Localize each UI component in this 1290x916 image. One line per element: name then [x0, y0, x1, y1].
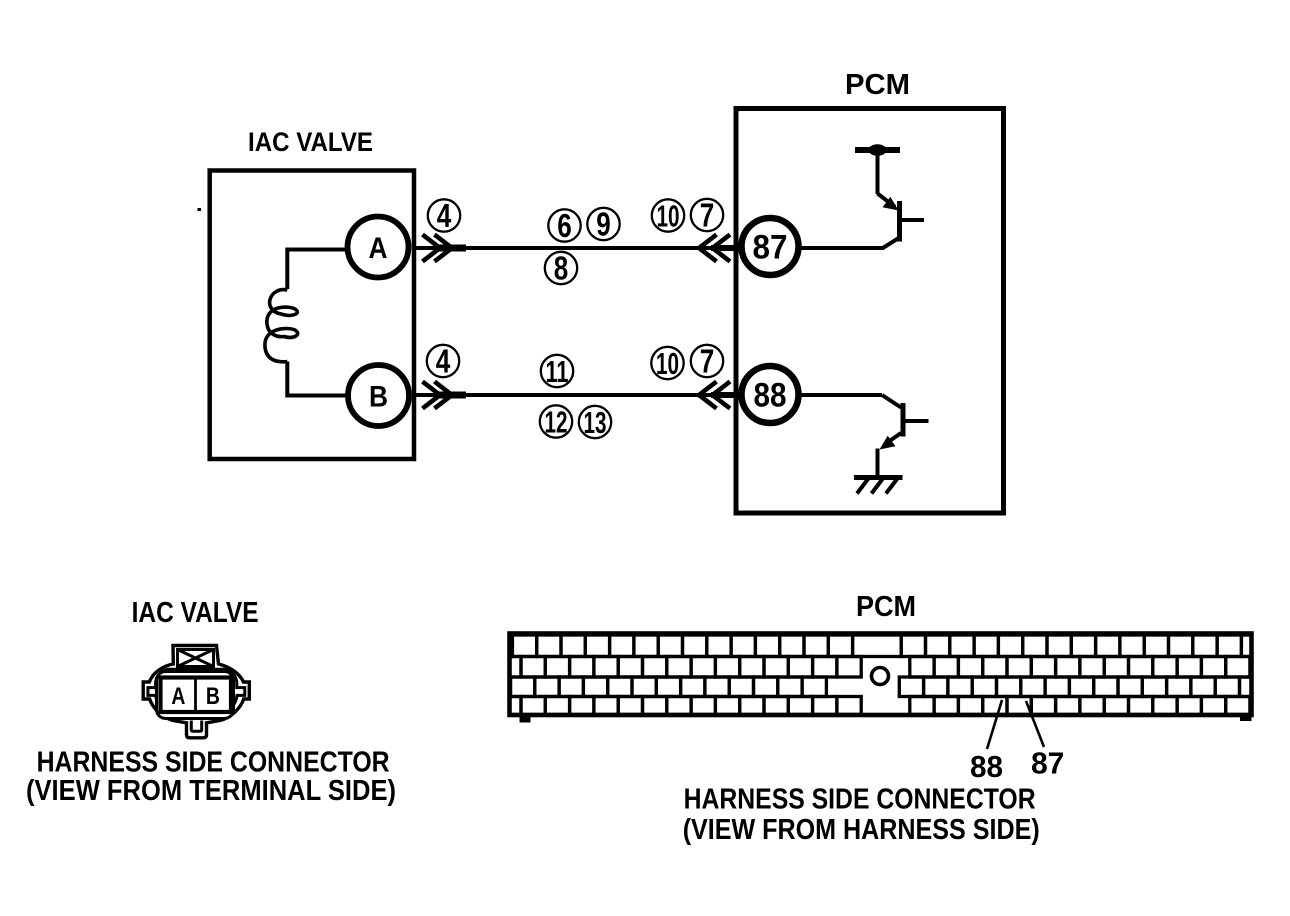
leader line to terminal 87 — [1026, 701, 1044, 747]
wire A to pin 87 — [414, 246, 736, 250]
wire power to Q1 emitter — [876, 150, 880, 194]
svg-text:10: 10 — [657, 199, 680, 234]
wire coil to terminal B — [287, 362, 345, 396]
circled 10 (bottom wire) — [651, 346, 683, 381]
svg-text:B: B — [369, 380, 388, 413]
ground — [854, 478, 903, 494]
svg-text:7: 7 — [700, 197, 715, 234]
svg-text:PCM: PCM — [845, 69, 910, 101]
svg-text:HARNESS SIDE CONNECTOR: HARNESS SIDE CONNECTOR — [37, 747, 390, 779]
circled 11 — [541, 354, 573, 389]
svg-text:7: 7 — [700, 343, 715, 380]
circled 4 (bottom wire) — [427, 343, 459, 380]
wire B to pin 88 — [414, 393, 736, 397]
wire pin 87 to Q1 collector — [799, 246, 884, 250]
svg-text:88: 88 — [970, 749, 1003, 784]
circled 8 — [545, 250, 577, 287]
circled 13 — [579, 405, 611, 440]
circled 12 — [540, 405, 572, 440]
stray scan dot — [198, 208, 202, 211]
svg-text:(VIEW FROM TERMINAL SIDE): (VIEW FROM TERMINAL SIDE) — [26, 775, 396, 807]
pin 88 — [742, 366, 799, 423]
leader line to terminal 88 — [987, 700, 1002, 749]
circled 10 (top wire) — [652, 199, 684, 234]
connector arrows at PCM end (bottom wire) — [699, 382, 735, 409]
PCM harness connector body — [510, 634, 1252, 716]
svg-text:A: A — [369, 232, 388, 265]
terminal A — [348, 217, 409, 278]
IAC valve harness connector outline — [143, 646, 249, 738]
circled 9 — [587, 206, 619, 243]
transistor Q2 (NPN) — [880, 395, 929, 450]
transistor Q1 (PNP) — [878, 194, 925, 249]
terminal housing — [157, 672, 234, 719]
svg-text:A: A — [171, 683, 185, 710]
svg-text:87: 87 — [753, 228, 788, 266]
wire Q2 emitter to ground — [876, 449, 880, 478]
terminal B — [348, 365, 409, 426]
circled 7 (bottom wire) — [691, 343, 723, 380]
wire terminal A to coil — [287, 250, 345, 290]
svg-text:88: 88 — [754, 377, 787, 415]
svg-text:9: 9 — [596, 206, 611, 243]
circled 4 (top wire) — [428, 197, 460, 234]
svg-text:87: 87 — [1031, 746, 1065, 781]
PCM connector mounting feet — [520, 715, 531, 723]
svg-text:(VIEW FROM HARNESS SIDE): (VIEW FROM HARNESS SIDE) — [683, 814, 1040, 846]
PCM connector screw hole — [872, 668, 889, 685]
circled 6 — [548, 207, 580, 244]
svg-text:11: 11 — [546, 354, 569, 389]
svg-text:12: 12 — [545, 405, 568, 440]
pin 87 — [742, 218, 799, 275]
connector arrows at valve end (top wire) — [423, 235, 467, 262]
svg-text:4: 4 — [436, 343, 451, 380]
svg-text:IAC VALVE: IAC VALVE — [248, 127, 373, 157]
svg-text:IAC VALVE: IAC VALVE — [132, 597, 259, 629]
svg-text:HARNESS SIDE CONNECTOR: HARNESS SIDE CONNECTOR — [684, 784, 1036, 816]
coil L1 (IAC valve winding) — [265, 290, 298, 362]
PCM connector terminal grid — [486, 635, 1274, 715]
wire pin 88 to Q2 base — [799, 393, 883, 397]
svg-text:13: 13 — [584, 405, 607, 440]
svg-text:PCM: PCM — [856, 591, 916, 623]
circled 7 (top wire) — [691, 197, 723, 234]
PCM box — [736, 109, 1004, 514]
connector arrows at PCM end (top wire) — [699, 235, 735, 262]
power supply bar node — [855, 144, 900, 156]
svg-text:10: 10 — [656, 346, 679, 381]
IAC valve box — [210, 171, 414, 460]
connector lock tab with X — [178, 650, 214, 667]
svg-text:4: 4 — [437, 197, 452, 234]
connector arrows at valve end (bottom wire) — [423, 382, 467, 409]
svg-text:6: 6 — [557, 207, 572, 244]
svg-text:B: B — [206, 683, 220, 710]
svg-text:8: 8 — [554, 250, 569, 287]
terminal cavity box A|B — [161, 678, 232, 713]
